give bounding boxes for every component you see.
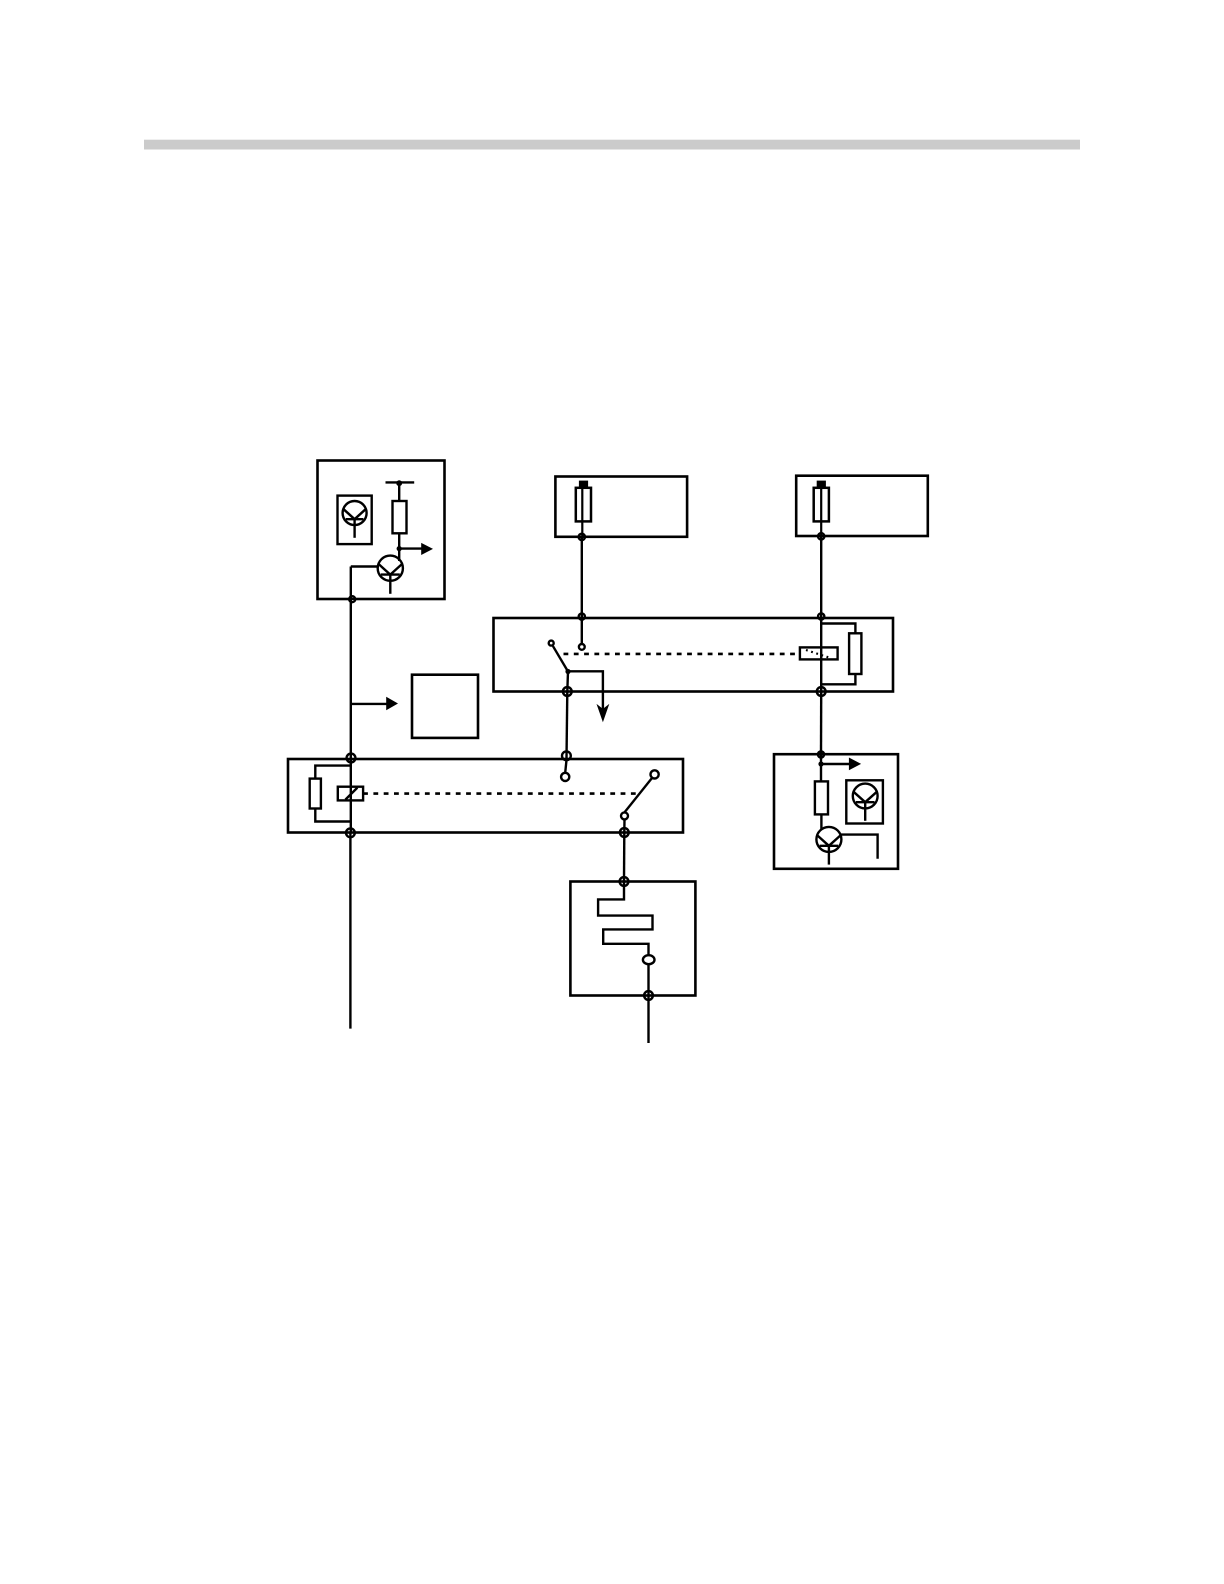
node J2 [565, 669, 570, 674]
transistor Q2 [816, 827, 841, 865]
switch arm SW1 [553, 646, 568, 671]
transistor Q1 [378, 556, 403, 594]
wire bar to resistor [398, 482, 400, 501]
wire SB1 tail [647, 996, 649, 1044]
wire Q1 base [351, 565, 378, 567]
wire RB1 to module box M2 [820, 692, 823, 755]
wire C3 to RB2 bottom [623, 819, 626, 832]
switch pivot SW2 [651, 770, 659, 778]
fuse F2 [814, 481, 829, 537]
wire FB2 to relay box RB1 [820, 536, 822, 691]
connector pin P8 on RB2 top [347, 754, 356, 763]
resistor R1 [393, 501, 407, 533]
power bar node in M1 [386, 480, 415, 486]
switch arm SW2 [625, 778, 653, 813]
sensor block U1 inner rectangle [338, 496, 372, 544]
connector pin P11 on RB2 bottom (left) [346, 828, 355, 837]
wire FB1 to relay box RB1 [581, 537, 583, 644]
connector pin P9 on RB2 top (switch side) [562, 751, 571, 760]
header rule [144, 140, 1080, 150]
connector pin P3 on FB2 bottom [818, 533, 824, 539]
contact terminal C1 [579, 644, 585, 650]
arrow output A1 [399, 543, 433, 555]
node J1 [397, 546, 402, 551]
contact terminal C2 [561, 759, 569, 781]
dashed link relay RB1 [564, 653, 800, 656]
resistor R4 [815, 781, 828, 814]
resistor R2 (parallel, in RB1) [821, 624, 861, 685]
arrow A2 (down) [597, 704, 610, 722]
fuse F1 [576, 481, 591, 537]
relay box RB1 (wide, middle) [494, 618, 894, 692]
fuse box FB2 (top-right) [796, 476, 928, 536]
transistor symbol T1 [343, 501, 367, 538]
connector pin P14 on M2 top [818, 751, 824, 757]
connector pin P10 on RB2 bottom (right) [620, 828, 629, 837]
node J3 [818, 761, 823, 766]
wire C4 to SB1 bottom [647, 964, 649, 995]
fuse box FB1 (top-middle) [555, 477, 687, 537]
wire RB2 to sensor box SB1 [623, 833, 626, 882]
transistor symbol T2 [853, 784, 878, 821]
wire M1 to relay box RB2 [350, 599, 352, 759]
connector pin P7 on RB1 bottom (right) [817, 687, 826, 696]
wire RB1 to RB2 switch [565, 692, 568, 760]
arrow A4 (output right) [821, 758, 861, 771]
connector terminal C4 (inside SB1) [643, 955, 655, 964]
connector pin P2 on FB1 bottom [579, 534, 585, 540]
relay coil L2 [338, 787, 363, 801]
wire through RB2 (coil feed) [350, 759, 352, 833]
wire resistor to junction [398, 533, 400, 561]
wire Q2 collector to right drop [840, 835, 877, 859]
dashed link relay RB2 [363, 792, 640, 795]
switch pivot SW1 [549, 641, 554, 646]
arrow A3 (tap to right) [351, 697, 398, 710]
module box M1 (top-left) [318, 461, 445, 600]
connector pin P13 on SB1 bottom [644, 991, 653, 1000]
wire base to M1 bottom [350, 567, 352, 600]
block box B1 (small empty square) [412, 675, 478, 738]
connector pin P1 on M1 bottom [349, 596, 355, 602]
wire J3 to resistor R4 [820, 754, 822, 781]
relay coil L1 [800, 647, 838, 659]
connector pin P5 on RB1 top (from FB2) [818, 613, 824, 619]
contact terminal C3 [621, 812, 628, 819]
heater element HE1 (zigzag) [598, 882, 652, 956]
relay box RB2 (wide, lower-left) [288, 759, 683, 833]
wire R4 to transistor Q2 [820, 814, 822, 829]
resistor R3 (parallel, in RB2) [310, 766, 351, 822]
connector pin P4 on RB1 top (from FB1) [579, 614, 585, 620]
connector pin P6 on RB1 bottom [563, 687, 572, 696]
connector pin P12 on SB1 top [620, 877, 629, 886]
wire RB2 to ground run (left) [349, 833, 351, 1029]
sensor box SB1 (bottom-middle) [570, 882, 695, 996]
wire J2 to down-arrow [568, 671, 603, 712]
driver block U2 inner rectangle [846, 780, 883, 823]
wire J2 to RB1 bottom [566, 672, 569, 692]
module box M2 (bottom-right) [774, 754, 898, 869]
